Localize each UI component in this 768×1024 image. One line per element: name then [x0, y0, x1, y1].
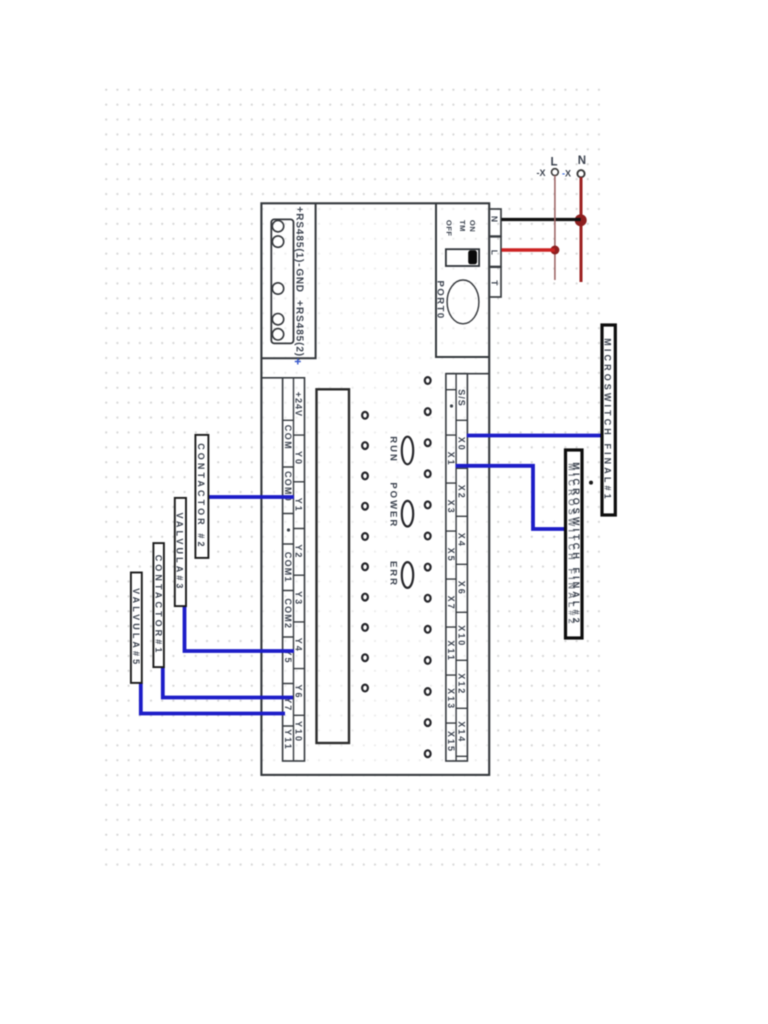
svg-text:+RS485(1)-: +RS485(1)-: [294, 207, 305, 268]
svg-text:COM1: COM1: [283, 552, 293, 583]
RS485 pin 3: [272, 314, 283, 325]
wire X0 to microswitch1 (blue): [467, 434, 606, 438]
svg-text:CONTACTOR#1: CONTACTOR#1: [153, 555, 163, 656]
node marker blue cross: [295, 359, 301, 365]
LED POWER: [402, 501, 413, 527]
svg-text:+24V: +24V: [294, 392, 304, 417]
svg-text:MICROSWITCH FINAL#2: MICROSWITCH FINAL#2: [567, 463, 577, 626]
svg-text:X14: X14: [457, 721, 467, 743]
svg-text:OFF: OFF: [445, 220, 454, 237]
svg-text:Y7: Y7: [283, 697, 293, 712]
output relay window: [317, 389, 350, 743]
junction L: [550, 246, 559, 255]
output terminal strip Y outline: [283, 378, 305, 761]
wire Y-COM0 to contactor2 (blue): [208, 495, 294, 499]
svg-text:X13: X13: [446, 688, 456, 710]
RS485 pin 1: [272, 221, 283, 232]
wire N drop (black): [502, 218, 581, 221]
terminal screws row lower: [362, 412, 368, 691]
device box CONTACTOR #2: [195, 435, 208, 558]
output strip upper cell dividers: [294, 435, 305, 715]
RS485 section box: [261, 203, 315, 358]
svg-text:VALVULA#5: VALVULA#5: [131, 588, 141, 667]
svg-text:N: N: [578, 155, 586, 167]
svg-text:X11: X11: [446, 640, 456, 662]
input terminal strip X outline: [446, 374, 468, 761]
terminal screws row upper: [425, 377, 431, 757]
svg-text:-X: -X: [562, 169, 571, 179]
wire Y5 to valvula3 (blue): [185, 606, 295, 651]
svg-text:X12: X12: [457, 673, 467, 695]
output strip dot pin: [287, 528, 290, 531]
RS485 pin 2: [272, 236, 283, 247]
stray dot node: [589, 481, 593, 485]
svg-text:-X: -X: [537, 168, 546, 178]
svg-text:Y10: Y10: [294, 721, 304, 743]
device box MICROSWITCH FINAL#1: [602, 325, 615, 515]
input strip dot pin: [450, 404, 453, 407]
svg-text:X15: X15: [446, 731, 456, 753]
svg-text:MICROSWITCH FINAL#1: MICROSWITCH FINAL#1: [603, 338, 613, 501]
PLC controller body U1: [261, 203, 489, 775]
LED RUN: [402, 437, 413, 465]
terminal L cell: [489, 237, 501, 267]
svg-text:Y3: Y3: [294, 591, 304, 606]
svg-text:T: T: [490, 280, 500, 286]
svg-text:GND: GND: [294, 269, 305, 293]
svg-text:X10: X10: [457, 625, 467, 647]
svg-text:Y1: Y1: [294, 498, 304, 513]
svg-text:Y6: Y6: [294, 684, 304, 699]
svg-text:ERR: ERR: [388, 561, 399, 587]
svg-text:X5: X5: [446, 548, 456, 563]
svg-text:POWER: POWER: [388, 482, 399, 528]
PORT0 connector: [447, 280, 479, 324]
switch knob: [468, 250, 477, 264]
svg-text:Y4: Y4: [294, 638, 304, 653]
svg-text:L: L: [490, 250, 500, 255]
wire L drop (red): [502, 248, 555, 251]
input strip upper cell dividers: [456, 420, 467, 756]
svg-text:TM: TM: [458, 220, 467, 232]
supply terminal N circle: [577, 170, 584, 177]
svg-text:X1: X1: [446, 452, 456, 467]
wire Y7 to contactor1 (blue): [163, 667, 293, 698]
svg-text:Y2: Y2: [294, 544, 304, 559]
svg-text:Y0: Y0: [294, 451, 304, 466]
RS485 pin GND: [272, 283, 283, 294]
svg-text:X6: X6: [457, 581, 467, 596]
terminal N cell: [489, 209, 501, 236]
svg-text:N: N: [490, 216, 500, 222]
svg-text:ON: ON: [468, 220, 477, 232]
wire Y7b to valvula5 (blue): [141, 683, 285, 714]
device box CONTACTOR#1: [153, 543, 164, 667]
RS485 connector block J1: [271, 219, 293, 343]
svg-text:X7: X7: [446, 596, 456, 611]
svg-text:Y11: Y11: [283, 729, 293, 751]
svg-text:COM2: COM2: [283, 598, 293, 629]
input strip row separator: [455, 374, 457, 761]
wire X1 to microswitch2 (blue): [456, 466, 571, 529]
output strip lower cell dividers: [283, 420, 294, 726]
svg-text:VALVULA#3: VALVULA#3: [175, 512, 185, 591]
svg-text:PORT0: PORT0: [435, 281, 446, 320]
comm/switch section box: [436, 203, 489, 357]
svg-text:CONTACTOR #2: CONTACTOR #2: [196, 443, 206, 549]
svg-text:+RS485(2)-: +RS485(2)-: [294, 300, 305, 361]
svg-text:X2: X2: [457, 485, 467, 500]
wire L (thin dark red): [554, 176, 556, 281]
terminal T cell: [489, 267, 501, 297]
input strip lower cell dividers: [446, 390, 456, 723]
device box MICROSWITCH FINAL#2: [566, 450, 583, 638]
device box VALVULA#5: [131, 573, 142, 683]
svg-text:RUN: RUN: [388, 436, 399, 463]
svg-text:S/S: S/S: [457, 389, 467, 407]
wire N (red): [580, 177, 583, 282]
run/stop switch SW1: [446, 249, 479, 266]
device box VALVULA#3: [175, 498, 186, 606]
LED ERR: [402, 562, 413, 588]
svg-text:COM: COM: [283, 425, 293, 451]
svg-text:X0: X0: [457, 437, 467, 452]
svg-text:X4: X4: [457, 533, 467, 548]
supply terminal L circle: [552, 169, 559, 176]
svg-text:X3: X3: [446, 500, 456, 515]
output strip row separator: [293, 378, 295, 761]
RS485 pin 4: [272, 329, 283, 340]
svg-text:L: L: [551, 157, 558, 169]
junction N: [575, 214, 587, 226]
